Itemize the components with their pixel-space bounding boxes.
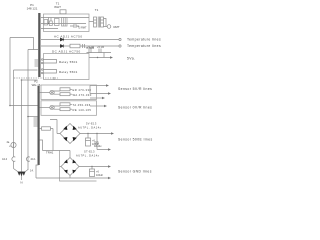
svg-text:Temperature lines: Temperature lines — [127, 44, 161, 48]
label T3 — [86, 47, 95, 50]
wire bridge B feed — [40, 140, 71, 158]
component K2 — [49, 21, 52, 26]
svg-text:RMT: RMT — [114, 25, 120, 29]
wire — [89, 21, 94, 23]
ground arrows — [18, 172, 25, 176]
label F2 — [114, 25, 120, 29]
socket C right — [26, 157, 29, 161]
wire — [104, 19, 108, 27]
transformer T1 — [94, 17, 104, 28]
terminal circle — [119, 38, 121, 40]
svg-text:ST-E13: ST-E13 — [84, 149, 95, 153]
5V regulator capacitors — [89, 49, 101, 54]
wire sensor line a — [90, 85, 106, 87]
svg-text:WHT: WHT — [54, 5, 61, 9]
ground tick — [53, 77, 55, 80]
svg-text:100uF: 100uF — [96, 174, 104, 177]
svg-text:AU7PL, DA14x: AU7PL, DA14x — [78, 125, 102, 129]
svg-text:RE 140-165: RE 140-165 — [73, 108, 92, 112]
svg-text:148 121: 148 121 — [27, 7, 38, 11]
resistor R5 — [60, 108, 70, 111]
label 5Va — [127, 57, 135, 61]
wire — [40, 107, 50, 109]
wire 5V line — [89, 57, 110, 59]
svg-text:Sensor 0V/R lines: Sensor 0V/R lines — [118, 106, 152, 110]
label C5 — [96, 170, 104, 177]
connector bar P2 — [38, 86, 40, 165]
svg-text:Sensor 500E lines: Sensor 500E lines — [118, 138, 153, 142]
node — [48, 23, 49, 24]
svg-text:WA 470-330: WA 470-330 — [73, 93, 92, 97]
label C4 — [92, 139, 100, 146]
relay contact pair 2 — [43, 70, 57, 74]
wire vertical V4 — [21, 80, 23, 171]
wire — [10, 105, 38, 107]
label R4 — [73, 103, 91, 107]
fuse F1 — [11, 142, 16, 147]
label N — [20, 181, 22, 185]
svg-text:Sensor 5V/R lines: Sensor 5V/R lines — [118, 87, 152, 91]
wire temperature line 2 — [41, 45, 119, 47]
wire 5V output — [80, 133, 111, 135]
wire — [51, 129, 54, 151]
connector bar P1 — [38, 13, 40, 77]
svg-text:(D7): (D7) — [94, 141, 99, 144]
resistor R2 — [60, 88, 70, 91]
wire stub — [89, 86, 91, 94]
wire — [28, 116, 38, 118]
svg-text:DA14x: DA14x — [94, 145, 102, 148]
label 14 — [30, 168, 34, 172]
wire 0V rail — [36, 176, 108, 179]
svg-text:Sensor GND lines: Sensor GND lines — [118, 170, 152, 174]
svg-text:14.: 14. — [30, 168, 34, 172]
label relay 5501 — [59, 60, 78, 64]
resistor R1 — [70, 44, 80, 48]
label BD2 — [76, 149, 100, 157]
wire — [60, 166, 62, 168]
svg-text:DC ADJ1 AC750: DC ADJ1 AC750 — [52, 49, 81, 53]
label TRH1 — [46, 150, 54, 154]
wire — [54, 104, 72, 109]
relay contact pair 1 — [43, 60, 57, 64]
svg-text:WH-16: WH-16 — [32, 83, 41, 87]
label sensor lines 2 — [118, 106, 152, 110]
label sensor lines 3 — [118, 138, 153, 142]
wire — [22, 79, 38, 81]
diode D1 — [60, 38, 63, 41]
label R5 — [73, 108, 92, 112]
wire vertical V1 — [9, 38, 11, 106]
node J2 — [27, 116, 29, 118]
node J3 — [21, 79, 23, 81]
label DC ADJ — [52, 49, 81, 53]
svg-text:+5 1%: +5 1% — [97, 46, 105, 49]
label C1 value — [78, 26, 88, 29]
ground stem — [21, 176, 23, 181]
bar P1 pin ticks — [35, 60, 39, 66]
svg-text:AC ADJ1 AC750: AC ADJ1 AC750 — [54, 35, 83, 39]
box around bridge B — [60, 150, 97, 181]
capacitor C1 — [70, 24, 79, 28]
label 44.1 — [31, 157, 37, 161]
socket C left — [12, 157, 15, 161]
label 44.4 — [2, 157, 8, 161]
svg-text:AU7PL, DA14x: AU7PL, DA14x — [76, 153, 100, 157]
wire — [41, 28, 58, 30]
transformer T1 top label — [54, 2, 61, 10]
wire GND output — [79, 166, 108, 168]
bar P2 pin ticks — [34, 118, 38, 126]
connector P1 label — [27, 3, 38, 11]
filter FL1 — [62, 18, 68, 27]
capacitor C4 — [87, 134, 89, 139]
svg-text:Temperature lines: Temperature lines — [127, 38, 161, 42]
dashed divider — [14, 77, 58, 79]
capacitor C5 — [91, 167, 93, 170]
label sensor lines 1 — [118, 87, 152, 91]
node J1 — [9, 105, 11, 107]
terminal circle — [119, 45, 121, 47]
thermal fuse F2 — [107, 25, 111, 29]
ground cluster wires — [14, 169, 29, 173]
wire — [14, 69, 38, 71]
svg-text:5V-E13: 5V-E13 — [86, 121, 97, 125]
transformer T1 label — [95, 8, 99, 12]
wire — [41, 23, 86, 25]
component K1 — [44, 20, 48, 26]
sensor group box 2 — [41, 101, 97, 116]
relay block box — [44, 54, 90, 80]
capacitor C2 — [83, 44, 85, 48]
svg-text:T3 RMT: T3 RMT — [78, 26, 88, 29]
svg-text:+5 1%: +5 1% — [87, 46, 95, 49]
wire temperature line 1 — [41, 39, 119, 41]
svg-text:T1: T1 — [95, 8, 99, 12]
arrow — [110, 56, 113, 59]
feed wire from P2 — [40, 128, 42, 130]
wire — [10, 38, 38, 50]
label temperature lines 1 — [127, 38, 161, 42]
thermistor TH2 — [50, 105, 54, 109]
wire sensor line c — [90, 97, 102, 99]
component L1 — [55, 19, 60, 26]
resistor R3 — [60, 93, 70, 96]
wire sensor line d — [90, 105, 104, 107]
wire — [41, 17, 89, 19]
svg-text:5Va.: 5Va. — [127, 57, 135, 61]
wire — [50, 120, 61, 134]
wire vertical V3 — [13, 70, 15, 157]
label BD1 — [78, 121, 102, 129]
fuse FR1 — [42, 127, 51, 130]
label R3 — [73, 93, 92, 97]
top block box U1 — [44, 14, 90, 32]
diode D2 — [60, 44, 63, 47]
wire — [54, 89, 72, 94]
svg-text:TRH1: TRH1 — [46, 150, 54, 154]
label relay 5502 — [59, 70, 78, 74]
wire vertical V2 — [27, 50, 29, 171]
resistor R4 — [60, 103, 70, 106]
label sensor GND lines — [118, 170, 152, 174]
svg-text:Relay 5501: Relay 5501 — [59, 60, 78, 64]
svg-text:Relay 5501: Relay 5501 — [59, 70, 78, 74]
bridge rectifier BD1 — [60, 124, 80, 144]
svg-text:44.1: 44.1 — [31, 157, 37, 161]
bar P2 bottom hook — [36, 165, 39, 178]
svg-text:N: N — [20, 181, 22, 185]
label AC ADJ — [54, 35, 83, 39]
switch SW1 on box top — [60, 10, 66, 14]
wire — [97, 134, 108, 150]
label D7 — [94, 141, 102, 148]
svg-text:TA 450-336: TA 450-336 — [73, 103, 91, 107]
bridge rectifier BD2 — [61, 158, 79, 176]
wire sensor line b — [90, 93, 108, 95]
label temperature lines 2 — [127, 44, 161, 48]
wire stub — [49, 18, 52, 24]
svg-text:ER 470-330: ER 470-330 — [73, 88, 92, 92]
label F1 — [7, 141, 12, 148]
sensor group box 1 — [41, 85, 97, 100]
svg-text:44.4: 44.4 — [2, 157, 8, 161]
label P2 — [32, 79, 41, 86]
wire — [13, 162, 15, 169]
label R2 — [73, 88, 92, 92]
label cap values — [87, 46, 105, 49]
wire — [87, 53, 112, 58]
thermistor TH1 — [50, 90, 54, 94]
wire — [40, 92, 50, 94]
